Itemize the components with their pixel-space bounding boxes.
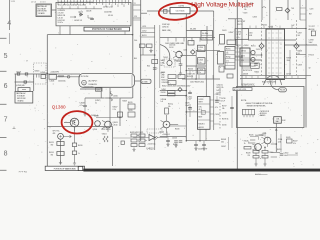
svg-text:R4705: R4705 bbox=[226, 49, 231, 51]
U4701 area small caps bbox=[254, 64, 258, 65]
plug circle bbox=[82, 80, 87, 85]
svg-text:1k: 1k bbox=[244, 143, 246, 145]
ic U4701 dividers bbox=[198, 103, 211, 105]
wire y40 bbox=[248, 39, 296, 41]
partial board box bbox=[36, 4, 52, 17]
svg-text:C4731 0.1: C4731 0.1 bbox=[217, 85, 224, 87]
wire y75.5 bbox=[240, 75, 311, 77]
tuner board top component stub bbox=[121, 0, 123, 5]
ic U4701 box bbox=[198, 97, 211, 130]
svg-text:R4732 12k: R4732 12k bbox=[217, 87, 224, 89]
svg-text:• SELECTOR MADE UP THIS PLA: • SELECTOR MADE UP THIS PLA bbox=[245, 102, 273, 105]
resistor under Q1380 a bbox=[72, 143, 76, 147]
spot killer arrow bbox=[63, 135, 71, 137]
svg-text:R4547: R4547 bbox=[293, 141, 298, 143]
svg-text:4: 4 bbox=[7, 20, 11, 27]
T4501 coils bbox=[103, 136, 108, 142]
resistor stack b2 bbox=[262, 156, 268, 159]
bell interior marks bbox=[271, 80, 273, 85]
junction dots bbox=[186, 90, 188, 92]
u4510 rect a bbox=[131, 134, 137, 137]
svg-text:L4102 C41: L4102 C41 bbox=[58, 20, 66, 22]
svg-text:• THYRISTOR: • THYRISTOR bbox=[259, 111, 270, 113]
partial board box inner bbox=[37, 5, 51, 16]
svg-text:2kV: 2kV bbox=[298, 35, 301, 37]
small box right of cluster bbox=[287, 139, 293, 143]
vert x270 top bbox=[269, 0, 271, 29]
svg-text:4.7u 1.2k 3.9 0.5u 1u 10k 1uF: 4.7u 1.2k 3.9 0.5u 1u 10k 1uF 22 4u 1k 2… bbox=[58, 5, 87, 7]
comp x154 y60 bbox=[152, 60, 158, 64]
gnd c4545a bbox=[194, 146, 197, 150]
margin border line top bbox=[9, 0, 11, 30]
wire Q1380 down bbox=[74, 127, 76, 143]
cap drop 1 bbox=[195, 141, 197, 144]
transistor Q4502 bbox=[176, 51, 182, 57]
Q4515 leads bbox=[161, 121, 167, 133]
L4503 box bbox=[49, 75, 57, 80]
small boxes x168 row2 bbox=[178, 75, 185, 79]
wire into Q1380 bbox=[64, 122, 70, 124]
svg-text:4.7k: 4.7k bbox=[215, 107, 218, 109]
cap C4516 bbox=[121, 141, 124, 144]
svg-text:C4709: C4709 bbox=[298, 64, 303, 66]
svg-text:R4549: R4549 bbox=[246, 152, 251, 154]
small box x168 y81 bbox=[168, 81, 176, 85]
wire partial board to tuner box bbox=[52, 9, 57, 11]
wires right mid bbox=[250, 54, 262, 56]
module right cap line bbox=[131, 75, 133, 86]
svg-text:FOCUS: FOCUS bbox=[309, 54, 314, 56]
Q4504 leads bbox=[102, 121, 108, 132]
resistor vert x166 bbox=[165, 108, 169, 114]
tuner board top component stub bbox=[124, 0, 126, 3]
arrow on lm wire bbox=[275, 128, 277, 131]
wire h y55 bbox=[140, 54, 155, 56]
svg-text:39k: 39k bbox=[51, 155, 54, 157]
svg-text:C4 R41 C4 L4: C4 R41 C4 L4 bbox=[103, 7, 113, 9]
Q4547 leads bbox=[252, 144, 256, 150]
wire y66 bbox=[186, 65, 206, 67]
rail vertical x132 upper bbox=[132, 0, 134, 74]
tuner board top component stub bbox=[73, 0, 75, 3]
u4510 rect d bbox=[139, 139, 145, 142]
wire into mult from rail bbox=[141, 12, 147, 14]
svg-text:56k: 56k bbox=[221, 142, 224, 144]
svg-text:SAFE LINE: SAFE LINE bbox=[162, 29, 172, 32]
wire curve to capsule bbox=[270, 80, 279, 90]
svg-text:1C4: 1C4 bbox=[134, 16, 137, 18]
tall narrow box bbox=[218, 52, 224, 65]
wire lm down bbox=[275, 123, 277, 152]
small box on rail y40 bbox=[188, 41, 194, 46]
svg-text:J4 C4 WH: J4 C4 WH bbox=[81, 76, 89, 78]
svg-text:C4707: C4707 bbox=[298, 32, 303, 34]
wire ac row top bbox=[15, 73, 81, 75]
tuner board top component stub bbox=[118, 0, 120, 3]
svg-text:R4502 C4503 L4503 C4505 R450: R4502 C4503 L4503 C4505 R4505 C4507 bbox=[162, 86, 191, 88]
tuner board box bbox=[56, 2, 131, 25]
transformer T4800 box bbox=[141, 79, 151, 83]
cap C4515 bbox=[188, 108, 192, 109]
svg-text:41 B: 41 B bbox=[199, 109, 202, 111]
resistor R4513 bbox=[57, 142, 64, 146]
resistor stack a1 bbox=[253, 151, 259, 154]
svg-text:R470: R470 bbox=[244, 12, 248, 14]
svg-text:8: 8 bbox=[4, 151, 8, 158]
rung pair upper bbox=[133, 9, 141, 11]
svg-text:RESISTOR NETWORK.: RESISTOR NETWORK. bbox=[247, 106, 267, 108]
svg-text:Q4506: Q4506 bbox=[93, 129, 98, 131]
wire into multiplier bbox=[147, 10, 170, 12]
vert x262 top bbox=[261, 0, 263, 20]
label strip AT 50 bbox=[233, 88, 252, 91]
ladder rung y28 bbox=[141, 27, 155, 29]
rail vertical x306 bbox=[305, 0, 307, 128]
diamond +12V bbox=[178, 88, 182, 92]
wire y45 right bbox=[284, 44, 317, 46]
svg-text:R47: R47 bbox=[309, 13, 312, 15]
svg-text:C4513: C4513 bbox=[215, 94, 220, 96]
svg-text:• MODULE: • MODULE bbox=[259, 113, 267, 115]
rail vertical x237 board boundary bbox=[236, 0, 238, 169]
spot killer circle bbox=[58, 133, 64, 139]
flyback dashed right bbox=[295, 20, 297, 75]
svg-text:R4103 C84: R4103 C84 bbox=[58, 15, 66, 17]
wire Q4548 up bbox=[267, 138, 269, 141]
svg-text:C4507 R4509 C4511: C4507 R4509 C4511 bbox=[190, 81, 204, 83]
svg-text:R4516: R4516 bbox=[78, 145, 83, 147]
wire stack a bbox=[255, 146, 257, 150]
tuner board top component stub bbox=[79, 0, 81, 3]
ladder rung y37 bbox=[141, 36, 155, 38]
ac interlock dashed box bbox=[34, 63, 47, 84]
bottom border band bbox=[83, 169, 320, 172]
tiny mark left bottom bbox=[13, 127, 16, 129]
tuner cap C4109 bbox=[90, 18, 94, 19]
svg-text:R4506: R4506 bbox=[188, 68, 193, 70]
svg-text:R4710 C4711: R4710 C4711 bbox=[243, 70, 252, 72]
wire y78.5 bbox=[240, 78, 306, 80]
transformer T4502 dashed box bbox=[164, 59, 175, 67]
svg-text:D4740: D4740 bbox=[222, 124, 227, 126]
svg-text:VERT: VERT bbox=[199, 102, 203, 104]
wire x221 v bbox=[228, 137, 230, 150]
rail vertical x160 bbox=[159, 25, 161, 88]
svg-text:4.7u: 4.7u bbox=[80, 105, 83, 107]
svg-text:R4514: R4514 bbox=[49, 152, 54, 154]
svg-text:2.2k: 2.2k bbox=[113, 109, 116, 111]
cap stubs y79 bbox=[191, 75, 193, 79]
vert x232 mid bbox=[231, 96, 233, 128]
comp on y45 bbox=[311, 31, 315, 36]
wires under U4701 bbox=[199, 129, 201, 140]
bottom tick right bbox=[255, 173, 268, 175]
svg-text:C4504: C4504 bbox=[198, 47, 203, 49]
svg-text:R4703: R4703 bbox=[142, 35, 147, 37]
ic U4701 inner box bbox=[201, 111, 205, 115]
svg-text:C4-81: C4-81 bbox=[176, 61, 180, 63]
tuner board top component stub bbox=[83, 0, 85, 5]
svg-text:R4701: R4701 bbox=[251, 45, 256, 47]
spot killer circle plus bbox=[59, 135, 62, 138]
wire x133-140 y18 bbox=[133, 17, 141, 19]
svg-text:T4501: T4501 bbox=[102, 134, 107, 136]
box C4508b bbox=[198, 68, 206, 74]
wire ac row bottom bbox=[15, 81, 34, 83]
svg-text:PORTION OF MAIN BOARD: PORTION OF MAIN BOARD bbox=[54, 167, 77, 170]
lm501 box bbox=[274, 117, 282, 124]
wire Q4548 right bbox=[271, 143, 277, 145]
svg-text:4.7u 25V: 4.7u 25V bbox=[58, 13, 65, 15]
rail vertical x196 bbox=[195, 50, 197, 79]
svg-text:1245: 1245 bbox=[278, 142, 282, 144]
resistor under Q1380 b bbox=[72, 151, 76, 155]
svg-text:R4546: R4546 bbox=[244, 140, 249, 142]
svg-text:BOARD: BOARD bbox=[38, 12, 45, 15]
ac rail v2 bbox=[33, 74, 35, 91]
small rect above cellbox bbox=[227, 40, 236, 45]
svg-text:High Voltage Multiplier: High Voltage Multiplier bbox=[191, 1, 254, 8]
svg-text:C44: C44 bbox=[134, 40, 137, 42]
transistor Q4705 bbox=[251, 50, 255, 54]
tuner board top component stub bbox=[63, 0, 65, 5]
cap stub y136 a bbox=[167, 137, 169, 141]
wire module to T4800 bbox=[135, 80, 142, 82]
small box x168 y76 bbox=[168, 75, 176, 79]
tuner board top component stub bbox=[127, 0, 129, 5]
spot killer wire down bbox=[60, 139, 62, 164]
ac rail v1 bbox=[14, 74, 16, 91]
svg-text:C4541: C4541 bbox=[222, 30, 227, 32]
crt bell curve bbox=[264, 76, 282, 86]
svg-text:F4701: F4701 bbox=[262, 24, 267, 26]
wire y37 bbox=[160, 37, 215, 39]
svg-text:R4501 5.6: R4501 5.6 bbox=[162, 80, 169, 82]
wires around Q4515 bbox=[166, 115, 168, 121]
wire y136 cluster bbox=[250, 136, 259, 138]
box3 bottom strip bbox=[45, 166, 84, 170]
resistor box b bbox=[168, 94, 176, 96]
box u4790b bbox=[235, 29, 249, 40]
cap C4503 box bbox=[24, 81, 27, 83]
tuner inner stub wires bbox=[61, 6, 63, 9]
box3 right edge bbox=[112, 127, 114, 167]
Q4548 leads bbox=[261, 137, 267, 147]
svg-text:1094 06: 1094 06 bbox=[162, 27, 169, 29]
vert x290 mid bbox=[289, 50, 291, 75]
interlock contacts bbox=[36, 74, 38, 78]
svg-text:+C4106 IN: +C4106 IN bbox=[58, 10, 66, 12]
box C480 below module bbox=[96, 88, 103, 91]
tuner board top component stub bbox=[92, 0, 94, 3]
tuner board top component stub bbox=[111, 0, 113, 3]
resistor stack a2 bbox=[253, 156, 259, 159]
bottom border small box bbox=[78, 166, 83, 170]
rail vertical x220 dashed bbox=[219, 88, 221, 130]
wire out of multiplier bbox=[190, 10, 214, 12]
box C4504 bbox=[198, 45, 206, 51]
wire y70 x186-206 bbox=[186, 70, 206, 72]
fuse F4501 box bbox=[41, 75, 46, 79]
svg-text:C4547: C4547 bbox=[221, 146, 226, 148]
svg-text:AC INPUT: AC INPUT bbox=[89, 79, 99, 82]
wire y111.9 bbox=[186, 111, 197, 113]
svg-text:SPOT KIL: SPOT KIL bbox=[53, 131, 60, 133]
svg-text:M59: M59 bbox=[199, 117, 203, 119]
multiplier box bbox=[170, 8, 190, 14]
svg-text:C4546: C4546 bbox=[172, 138, 177, 140]
cap x217 y100 bbox=[215, 101, 219, 102]
wire Q4547 left bbox=[248, 142, 255, 144]
red ellipse around HV multiplier bbox=[158, 1, 198, 22]
wire x137 h bbox=[133, 4, 141, 6]
narrow box2 x219 bbox=[219, 66, 224, 72]
ac input module box bbox=[79, 74, 135, 88]
wire y126 bbox=[170, 125, 186, 127]
gnd x85 bbox=[83, 112, 86, 116]
svg-text:U4702: U4702 bbox=[241, 51, 246, 53]
svg-text:T4502: T4502 bbox=[163, 57, 168, 59]
svg-text:R4708: R4708 bbox=[298, 50, 303, 52]
tuner board top component stub bbox=[89, 0, 91, 5]
diode L4110 bbox=[79, 13, 83, 16]
svg-text:C4545 4.7uF: C4545 4.7uF bbox=[198, 149, 207, 151]
vert x110 bbox=[109, 88, 111, 126]
svg-text:C470: C470 bbox=[310, 9, 314, 11]
svg-text:C4507 1094: C4507 1094 bbox=[187, 73, 195, 75]
gnd x180 y72 bbox=[179, 71, 182, 75]
wire y89 bbox=[80, 88, 101, 90]
gnd x151 bbox=[149, 48, 152, 52]
svg-text:511 T5605: 511 T5605 bbox=[176, 11, 185, 13]
box pair top2 bbox=[147, 44, 153, 48]
wire y79 bbox=[182, 78, 220, 80]
svg-text:L4505: L4505 bbox=[113, 96, 118, 98]
svg-text:T48: T48 bbox=[291, 8, 294, 10]
svg-text:22u: 22u bbox=[198, 72, 201, 74]
small wire y68 bbox=[242, 67, 250, 69]
notes big box bbox=[237, 87, 305, 128]
cap pair C4546 bbox=[174, 141, 178, 142]
svg-text:SP 8T: SP 8T bbox=[236, 34, 241, 36]
scan speckle texture bbox=[18, 0, 318, 167]
svg-text:U4510: U4510 bbox=[147, 147, 155, 150]
vertical x207 bbox=[206, 26, 208, 44]
wire y28.5 right bbox=[242, 28, 306, 30]
svg-text:6: 6 bbox=[4, 83, 8, 90]
svg-text:(C4507): (C4507) bbox=[95, 100, 101, 102]
svg-text:ANODE: ANODE bbox=[309, 28, 316, 31]
junction C4505 bbox=[67, 76, 70, 79]
svg-text:+C4506 R450: +C4506 R450 bbox=[83, 87, 94, 89]
svg-text:C4505 AC: C4505 AC bbox=[58, 80, 66, 83]
rail vertical x213 bbox=[213, 44, 215, 130]
wires U4702 left bbox=[235, 47, 240, 49]
diamond top right bbox=[285, 8, 290, 13]
small rect col a bbox=[128, 104, 135, 109]
tuner drop wire bbox=[69, 26, 71, 35]
vert x101 bbox=[100, 88, 102, 98]
vert x281 bbox=[280, 134, 282, 153]
wire to gnd bbox=[74, 155, 76, 162]
svg-text:L4503: L4503 bbox=[50, 81, 55, 83]
svg-text:56k: 56k bbox=[222, 108, 225, 110]
transistor Q4706 bbox=[251, 57, 255, 61]
u4510 opamp bbox=[149, 135, 155, 141]
flyback diamond right bbox=[294, 43, 299, 48]
svg-text:C4703: C4703 bbox=[253, 16, 258, 18]
svg-text:C4475: C4475 bbox=[185, 102, 190, 104]
note table cells bbox=[245, 109, 247, 115]
svg-text:R4712 D4509 C4713: R4712 D4509 C4713 bbox=[262, 82, 276, 84]
resistor box a bbox=[168, 91, 176, 93]
margin border line segment bbox=[9, 33, 11, 44]
svg-text:390: 390 bbox=[51, 145, 54, 147]
svg-text:C4715 R4716 D4717: C4715 R4716 D4717 bbox=[241, 84, 254, 86]
svg-text:R44: R44 bbox=[147, 65, 150, 67]
wire top cluster bbox=[264, 132, 266, 137]
ic U4702 box bbox=[240, 48, 250, 66]
gnd u4510 bbox=[132, 148, 135, 152]
note table box bbox=[243, 109, 255, 115]
tuner board top component stub bbox=[95, 0, 97, 5]
svg-text:1094: 1094 bbox=[249, 32, 253, 34]
box C4513 bbox=[118, 112, 123, 117]
svg-text:+C4533 10u: +C4533 10u bbox=[147, 144, 155, 146]
diamond FH08 bbox=[191, 50, 196, 55]
tuner drop wire 2 bbox=[59, 26, 61, 35]
flyback dashed left bbox=[261, 20, 263, 75]
svg-text:LINE: LINE bbox=[161, 74, 165, 76]
cap C4512 bbox=[188, 92, 192, 93]
svg-text:LINE: LINE bbox=[161, 63, 165, 65]
tuner board top component stub bbox=[70, 0, 72, 5]
svg-text:S4501: S4501 bbox=[35, 71, 40, 73]
wire y95.5 bbox=[160, 95, 187, 97]
cell box lines bbox=[225, 50, 235, 52]
u4510 rect f bbox=[139, 144, 145, 147]
wire cellbox right bbox=[235, 56, 242, 58]
gnd y143 x168 bbox=[166, 142, 169, 146]
svg-text:R4519: R4519 bbox=[128, 102, 133, 104]
transistor Q4548 bbox=[264, 137, 271, 144]
svg-text:U4701: U4701 bbox=[199, 99, 204, 101]
stub wires right of U4701 bbox=[210, 99, 214, 101]
cap drop 2 bbox=[203, 141, 205, 144]
Q1380 internal bbox=[73, 120, 77, 132]
svg-text:1k: 1k bbox=[78, 153, 80, 155]
svg-text:C4510: C4510 bbox=[113, 125, 118, 127]
wire y18.8 bbox=[228, 18, 242, 20]
partial mold board box bbox=[15, 91, 33, 103]
margin tick bbox=[0, 169, 7, 171]
box pair right bottom bbox=[227, 74, 233, 78]
svg-text:4) T480: 4) T480 bbox=[142, 81, 148, 83]
svg-text:C4738: C4738 bbox=[222, 112, 227, 114]
cap x180 y66 bbox=[179, 64, 183, 65]
svg-text:C4701: C4701 bbox=[236, 31, 241, 33]
svg-text:B4: B4 bbox=[161, 65, 163, 67]
tuner board top component stub bbox=[105, 0, 107, 3]
vert x235 mid bbox=[234, 48, 236, 60]
u4510 rect e bbox=[131, 144, 137, 147]
tuner board top component stub bbox=[76, 0, 78, 5]
rail vertical x186 bbox=[185, 21, 187, 141]
svg-text:1.0uF: 1.0uF bbox=[185, 105, 189, 107]
resistor R4514 bbox=[57, 152, 64, 156]
svg-text:F F F F A: F F F F A bbox=[19, 171, 28, 174]
margin tick bbox=[0, 70, 7, 72]
